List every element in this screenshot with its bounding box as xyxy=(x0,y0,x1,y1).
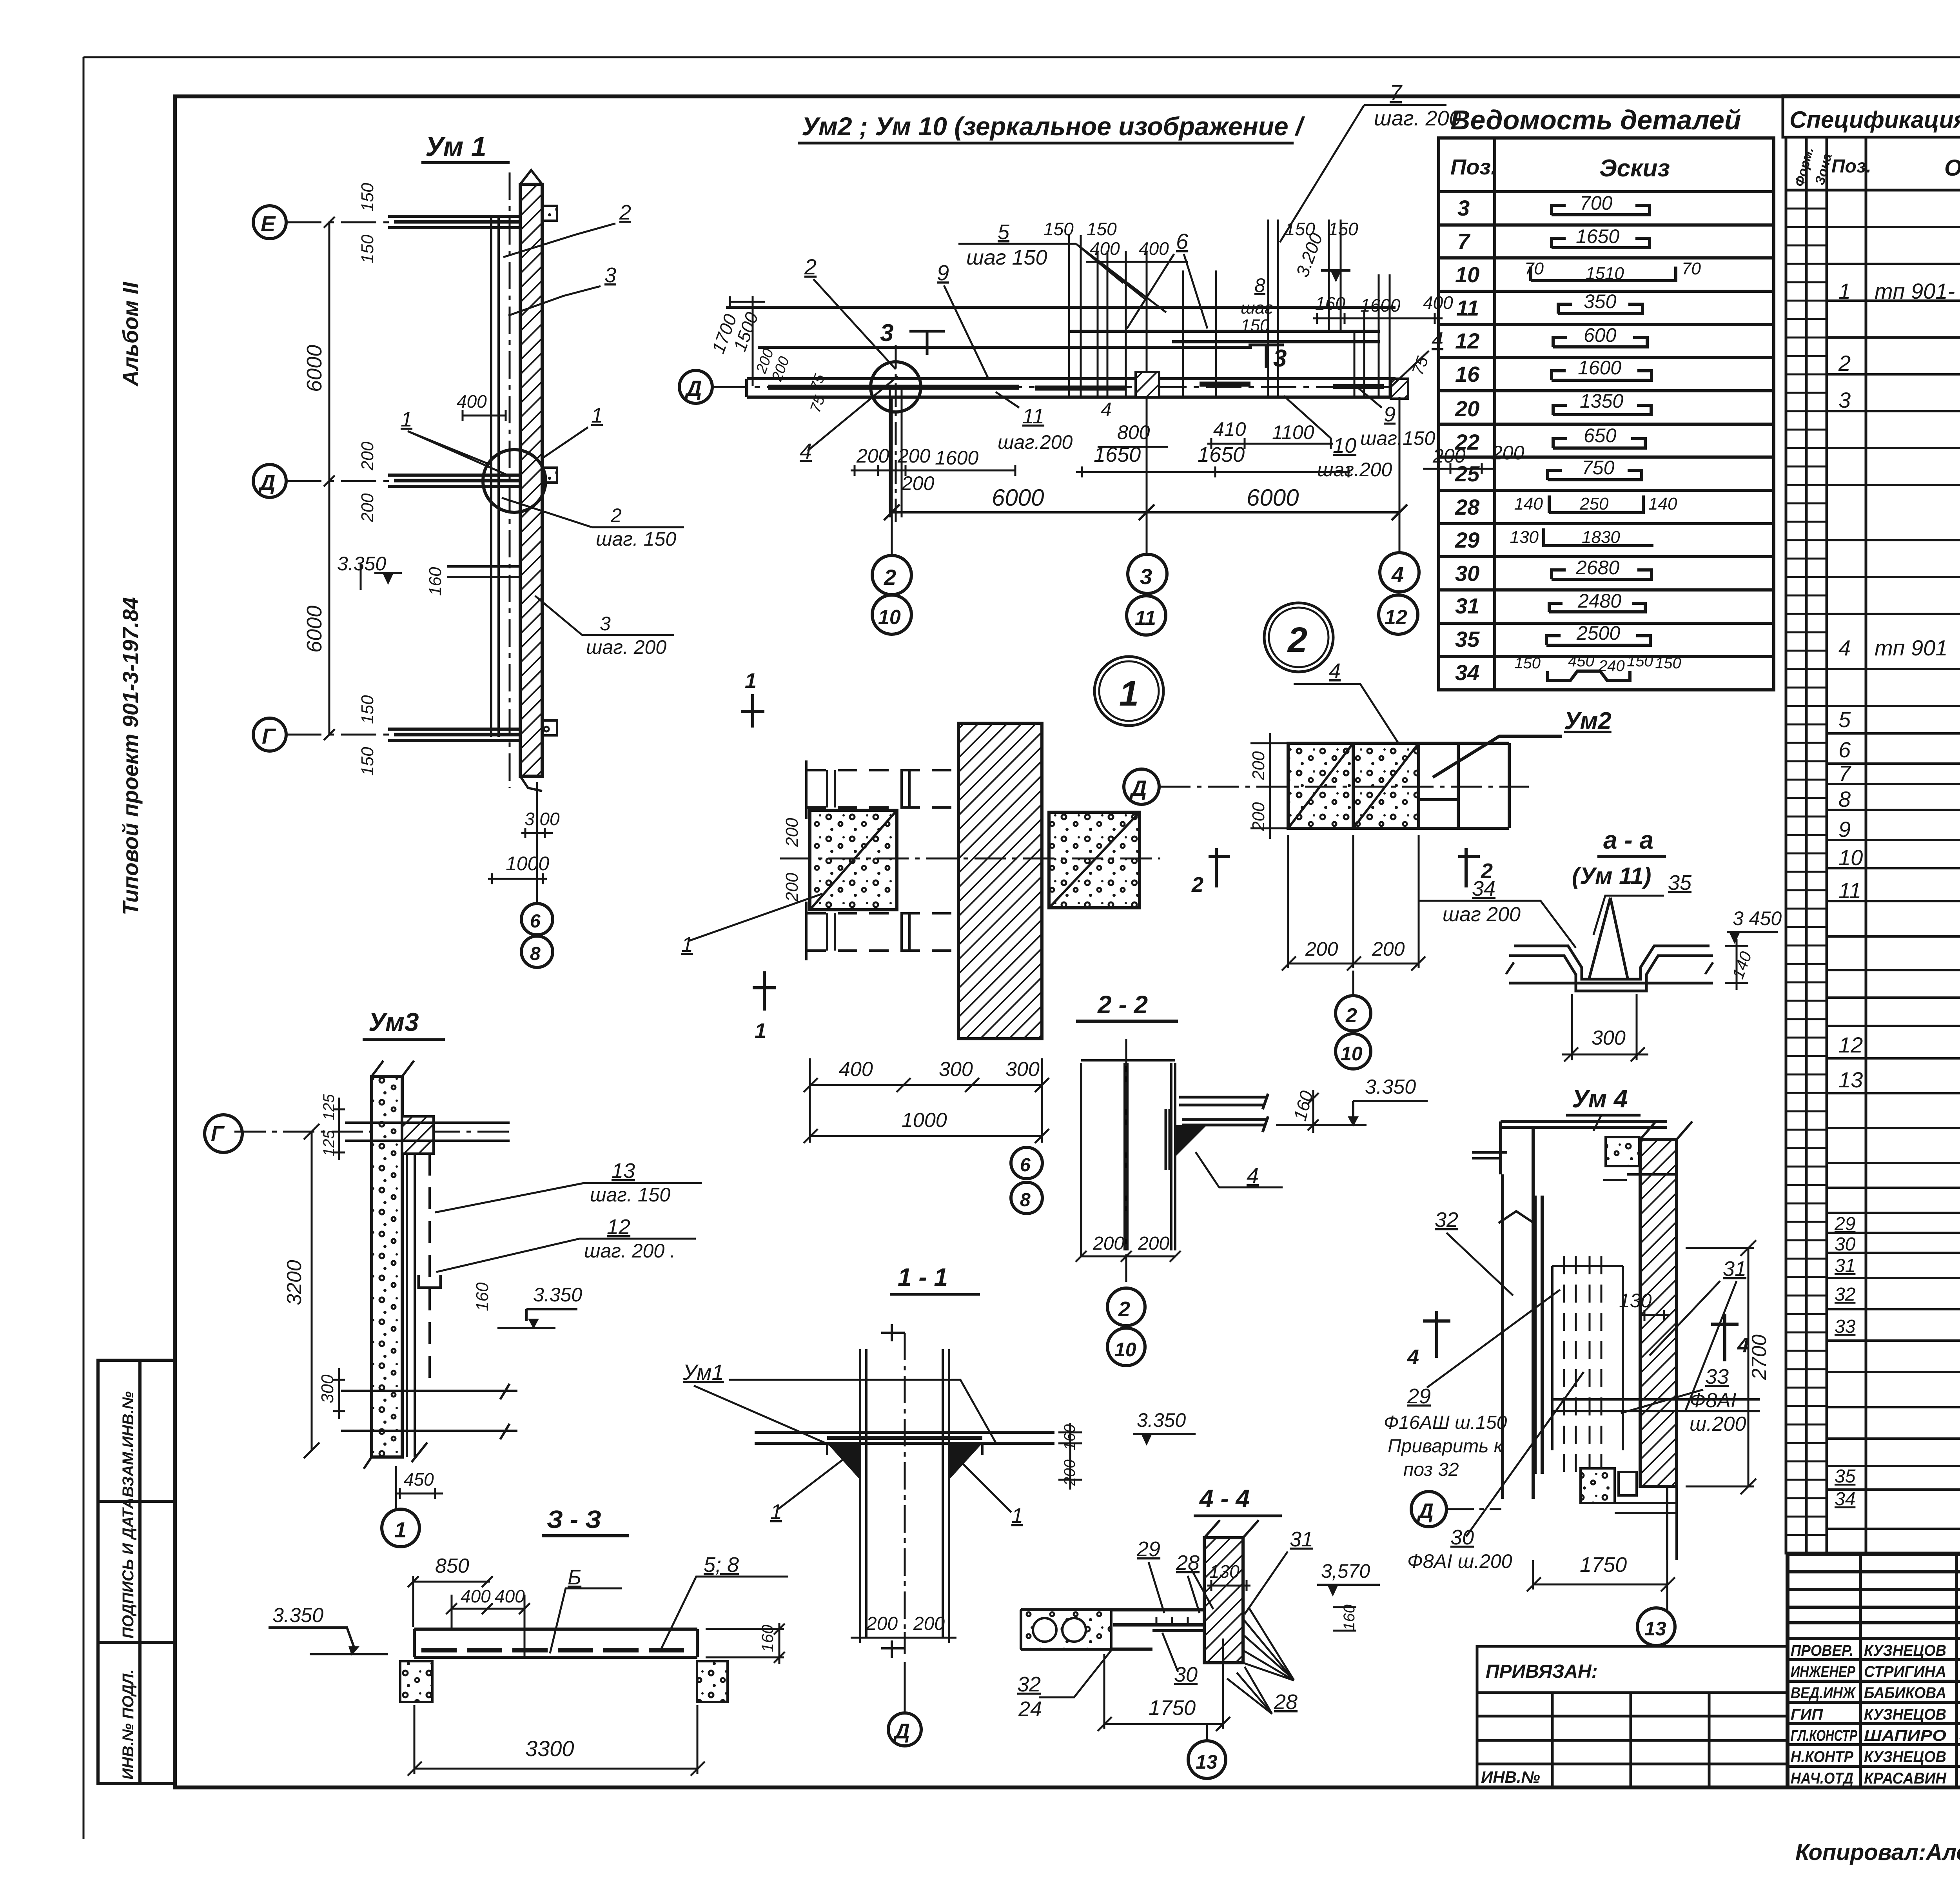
svg-text:20: 20 xyxy=(1455,396,1479,421)
1-1 slab dark bar xyxy=(827,1436,982,1440)
svg-text:33: 33 xyxy=(1705,1365,1729,1388)
detail 1 plan: left vertical edges xyxy=(806,760,909,960)
svg-text:2480: 2480 xyxy=(1577,590,1621,612)
svg-text:300: 300 xyxy=(1592,1027,1626,1049)
stirrup verticals xyxy=(890,220,1390,517)
svg-text:СТРИГИНА: СТРИГИНА xyxy=(1864,1663,1946,1680)
svg-text:1600: 1600 xyxy=(935,447,978,469)
axis circle 1 xyxy=(382,1509,419,1547)
svg-text:1600: 1600 xyxy=(1360,295,1401,316)
svg-text:400: 400 xyxy=(839,1058,873,1081)
svg-text:130: 130 xyxy=(1209,1561,1240,1582)
svg-text:1: 1 xyxy=(1011,1504,1023,1528)
svg-text:Ум 1: Ум 1 xyxy=(425,131,486,162)
svg-text:2: 2 xyxy=(610,504,622,526)
svg-text:1350: 1350 xyxy=(1580,390,1623,412)
Ум1 embed plates xyxy=(543,206,557,221)
svg-text:200: 200 xyxy=(1305,938,1338,960)
svg-text:160: 160 xyxy=(1341,1604,1358,1631)
svg-text:31: 31 xyxy=(1455,593,1479,618)
svg-text:2500: 2500 xyxy=(1576,622,1620,644)
Ум4 right hatched wall xyxy=(1640,1140,1677,1486)
svg-text:8: 8 xyxy=(1020,1190,1031,1210)
svg-text:Обозначение: Обозначение xyxy=(1944,155,1960,181)
svg-text:(Ум 11): (Ум 11) xyxy=(1572,863,1651,889)
svg-text:шаг 200: шаг 200 xyxy=(1443,903,1521,926)
svg-text:150: 150 xyxy=(1241,316,1270,335)
svg-text:33: 33 xyxy=(1835,1316,1856,1337)
axis circle Д xyxy=(1124,769,1159,804)
svg-text:1: 1 xyxy=(681,933,693,956)
sketch numbers xyxy=(1510,192,1701,675)
svg-text:Ум2 ; Ум 10 (зеркальное изобра: Ум2 ; Ум 10 (зеркальное изображение / xyxy=(802,112,1305,141)
svg-text:Ф16АШ ш.150: Ф16АШ ш.150 xyxy=(1384,1412,1507,1433)
2-2 corbel slab xyxy=(1166,1094,1268,1170)
axis circle 4 xyxy=(1380,553,1419,592)
big detail circle 1 xyxy=(1094,657,1163,726)
1-1 top section mark xyxy=(881,1324,905,1341)
svg-text:1: 1 xyxy=(1838,279,1851,303)
slabs at axes xyxy=(388,216,520,740)
svg-text:3,570: 3,570 xyxy=(1321,1560,1370,1582)
svg-text:200: 200 xyxy=(856,445,889,467)
node detail circle at Д xyxy=(483,450,546,512)
svg-text:28: 28 xyxy=(1274,1690,1298,1714)
svg-text:8: 8 xyxy=(530,944,541,964)
axis circle 10 xyxy=(872,595,911,634)
svg-text:3.350: 3.350 xyxy=(337,553,386,575)
svg-text:1000: 1000 xyxy=(506,853,549,875)
svg-text:Копировал:Алешикова: Копировал:Алешикова xyxy=(1795,1840,1960,1865)
svg-text:поз 32: поз 32 xyxy=(1403,1459,1459,1480)
Ум4 embed block top xyxy=(1606,1137,1639,1166)
З-З slab xyxy=(414,1629,697,1657)
svg-text:1: 1 xyxy=(770,1500,782,1524)
svg-text:ШАПИРО: ШАПИРО xyxy=(1864,1727,1946,1744)
svg-text:6000: 6000 xyxy=(992,484,1044,511)
svg-text:350: 350 xyxy=(1584,290,1617,312)
svg-text:КУЗНЕЦОВ: КУЗНЕЦОВ xyxy=(1864,1748,1946,1766)
svg-text:Д: Д xyxy=(1417,1499,1434,1523)
svg-text:ВЕД.ИНЖ: ВЕД.ИНЖ xyxy=(1791,1684,1856,1702)
svg-text:150: 150 xyxy=(1044,219,1074,239)
svg-text:10: 10 xyxy=(1341,1043,1363,1065)
svg-text:Ум1: Ум1 xyxy=(682,1360,724,1384)
svg-text:400: 400 xyxy=(1090,238,1120,259)
svg-text:600: 600 xyxy=(1584,324,1617,346)
svg-text:32: 32 xyxy=(1435,1208,1458,1232)
svg-text:400: 400 xyxy=(495,1586,525,1606)
svg-text:8: 8 xyxy=(1254,274,1265,296)
svg-text:3: 3 xyxy=(604,263,616,287)
svg-text:ПРИВЯЗАН:: ПРИВЯЗАН: xyxy=(1486,1661,1598,1682)
axis circle Д xyxy=(253,465,286,497)
vertical dim line xyxy=(324,217,361,740)
svg-text:160: 160 xyxy=(1315,293,1345,314)
svg-text:200: 200 xyxy=(782,873,802,902)
Ум4 left member xyxy=(1503,1174,1542,1499)
svg-text:800: 800 xyxy=(1117,421,1150,443)
circle 2 below plan xyxy=(1336,996,1371,1031)
left margin stamp strip xyxy=(98,1360,175,1784)
svg-text:150: 150 xyxy=(1087,219,1117,239)
Ум1 wall hatched strip xyxy=(520,184,542,776)
svg-text:12: 12 xyxy=(607,1215,630,1239)
1-1 axis circle Д xyxy=(888,1713,921,1746)
svg-text:Н.КОНТР: Н.КОНТР xyxy=(1791,1748,1853,1766)
svg-text:4: 4 xyxy=(1737,1334,1749,1357)
svg-text:200: 200 xyxy=(1372,938,1405,960)
node axis dashdot vertical xyxy=(895,345,897,527)
svg-text:4: 4 xyxy=(1329,659,1341,683)
circle 8 xyxy=(521,936,553,967)
svg-text:Ф8АІ ш.200: Ф8АІ ш.200 xyxy=(1407,1550,1512,1572)
Ум4 bottom blocks xyxy=(1581,1468,1615,1503)
svg-text:шаг.200: шаг.200 xyxy=(1317,459,1392,481)
axis circle Д xyxy=(1411,1492,1446,1527)
svg-text:4 - 4: 4 - 4 xyxy=(1199,1484,1250,1513)
Ум4 rebar dashed xyxy=(1564,1256,1601,1474)
svg-text:Д: Д xyxy=(893,1720,910,1743)
spec rows text xyxy=(1838,198,1960,1212)
svg-text:1830: 1830 xyxy=(1582,528,1620,547)
svg-text:1: 1 xyxy=(1119,674,1139,713)
svg-text:400: 400 xyxy=(1139,238,1169,259)
svg-text:6000: 6000 xyxy=(303,606,326,653)
svg-text:13: 13 xyxy=(1644,1618,1666,1640)
svg-text:150: 150 xyxy=(358,695,377,724)
svg-text:200: 200 xyxy=(782,818,802,847)
dense rows in narrow columns xyxy=(1786,209,1827,1535)
svg-text:34: 34 xyxy=(1455,660,1479,685)
circle 13 xyxy=(1637,1608,1675,1646)
svg-text:10: 10 xyxy=(878,606,901,629)
svg-text:31: 31 xyxy=(1723,1257,1746,1281)
svg-text:а - а: а - а xyxy=(1603,826,1653,854)
svg-text:4: 4 xyxy=(800,439,812,463)
svg-text:4: 4 xyxy=(1101,399,1112,421)
section marker 1 top xyxy=(741,694,764,728)
svg-text:28: 28 xyxy=(1176,1551,1200,1575)
svg-text:шаг. 200: шаг. 200 xyxy=(586,636,666,658)
svg-text:30: 30 xyxy=(1174,1663,1198,1686)
svg-text:70: 70 xyxy=(1524,259,1544,278)
svg-text:Д: Д xyxy=(258,470,275,495)
svg-text:3300: 3300 xyxy=(525,1736,574,1761)
svg-text:4: 4 xyxy=(1838,635,1851,660)
svg-text:6000: 6000 xyxy=(303,345,326,392)
svg-text:30: 30 xyxy=(1835,1234,1856,1255)
thick rebar segments xyxy=(768,384,1384,388)
svg-text:1650: 1650 xyxy=(1198,443,1245,466)
detail 1 plan: right concrete square xyxy=(1049,812,1140,908)
svg-text:5: 5 xyxy=(1838,707,1851,732)
svg-text:200: 200 xyxy=(1138,1233,1169,1254)
Ум3 top slab xyxy=(402,1116,434,1154)
svg-text:Поз.: Поз. xyxy=(1831,156,1871,177)
beam axis dash-dot xyxy=(712,386,1411,388)
row lines across body xyxy=(1827,227,1960,1529)
svg-text:6: 6 xyxy=(1838,737,1851,762)
svg-text:130: 130 xyxy=(1510,528,1539,547)
svg-text:300: 300 xyxy=(939,1058,973,1081)
svg-text:1750: 1750 xyxy=(1580,1553,1627,1577)
svg-text:3: 3 xyxy=(880,319,893,347)
title block inner lines xyxy=(1788,1554,1960,1787)
section mark 3 right xyxy=(1249,345,1284,368)
1-1 slab xyxy=(755,1432,1054,1443)
svg-text:КРАСАВИН: КРАСАВИН xyxy=(1864,1770,1947,1787)
section marker 2 right xyxy=(1458,848,1480,887)
svg-text:34: 34 xyxy=(1472,877,1495,900)
svg-text:БАБИКОВА: БАБИКОВА xyxy=(1864,1684,1946,1702)
svg-text:4: 4 xyxy=(1391,562,1404,587)
svg-text:400: 400 xyxy=(461,1586,491,1606)
beam main lines xyxy=(726,307,1396,397)
svg-text:3200: 3200 xyxy=(283,1260,306,1305)
svg-text:Эскиз: Эскиз xyxy=(1599,155,1670,182)
Ум3 wall concrete strip xyxy=(372,1076,402,1457)
svg-text:400: 400 xyxy=(457,391,487,412)
svg-text:ВЗАМ.ИНВ.№: ВЗАМ.ИНВ.№ xyxy=(120,1391,137,1497)
svg-text:Ум 4: Ум 4 xyxy=(1572,1085,1628,1113)
sketches xyxy=(1531,205,1676,680)
vedomost grid xyxy=(1439,138,1774,690)
svg-text:Альбом II: Альбом II xyxy=(118,281,143,387)
svg-text:НАЧ.ОТД: НАЧ.ОТД xyxy=(1791,1770,1853,1787)
Ум4 top beam xyxy=(1501,1121,1667,1174)
svg-text:3: 3 xyxy=(1838,388,1851,412)
svg-text:5; 8: 5; 8 xyxy=(704,1553,739,1577)
svg-text:Приварить к: Приварить к xyxy=(1388,1436,1504,1457)
svg-text:11: 11 xyxy=(1022,405,1044,428)
svg-text:12: 12 xyxy=(1838,1032,1863,1057)
axis circle 2 xyxy=(872,555,911,595)
svg-text:31: 31 xyxy=(1835,1256,1855,1276)
svg-text:1750: 1750 xyxy=(1149,1696,1196,1720)
svg-text:Ф8АІ: Ф8АІ xyxy=(1690,1389,1736,1412)
svg-text:2: 2 xyxy=(804,254,817,279)
axis circle Е xyxy=(253,206,286,239)
svg-text:1: 1 xyxy=(745,669,757,693)
detail 1 plan: left concrete square xyxy=(810,810,897,910)
4-4 hatched wall xyxy=(1204,1538,1243,1663)
circle 10 below plan xyxy=(1336,1034,1371,1069)
svg-text:300: 300 xyxy=(318,1374,337,1403)
4-4 circle 13 xyxy=(1188,1741,1226,1778)
axis circle Д left xyxy=(679,370,712,403)
svg-text:150: 150 xyxy=(1514,655,1541,672)
circle 6 xyxy=(521,904,553,935)
svg-text:450: 450 xyxy=(404,1469,434,1490)
svg-text:200: 200 xyxy=(358,493,377,523)
axis drops xyxy=(892,397,1399,555)
svg-text:шаг. 150: шаг. 150 xyxy=(596,528,676,550)
svg-text:200: 200 xyxy=(1491,442,1524,464)
2-2 wall lines xyxy=(1081,1060,1175,1256)
svg-text:ИНВ.№: ИНВ.№ xyxy=(1481,1768,1540,1786)
svg-text:ИНЖЕНЕР: ИНЖЕНЕР xyxy=(1791,1663,1855,1680)
svg-text:4: 4 xyxy=(1407,1345,1419,1369)
circle 6 below xyxy=(1011,1147,1042,1179)
svg-text:28: 28 xyxy=(1455,495,1480,519)
svg-text:30: 30 xyxy=(1455,561,1479,586)
Ум1 wall top break xyxy=(520,170,542,791)
svg-text:ПОДПИСЬ И ДАТА: ПОДПИСЬ И ДАТА xyxy=(120,1497,137,1639)
svg-text:2 - 2: 2 - 2 xyxy=(1097,991,1148,1019)
leader from Ум2 down-left xyxy=(1433,736,1562,777)
svg-text:850: 850 xyxy=(435,1555,469,1577)
svg-text:1650: 1650 xyxy=(1576,225,1619,247)
4-4 thick rebar line xyxy=(1113,1623,1235,1627)
svg-text:Д: Д xyxy=(1129,776,1147,800)
svg-text:70: 70 xyxy=(1682,259,1701,278)
svg-text:ИНВ.№ ПОДЛ.: ИНВ.№ ПОДЛ. xyxy=(120,1669,137,1780)
svg-text:200: 200 xyxy=(358,441,377,471)
Ум2 plan left dim lines xyxy=(1250,733,1288,839)
svg-text:32: 32 xyxy=(1835,1284,1855,1305)
svg-text:КУЗНЕЦОВ: КУЗНЕЦОВ xyxy=(1864,1706,1946,1723)
З-З supports xyxy=(400,1661,432,1702)
detail 1 plan: dashed wall edges xyxy=(806,770,958,951)
svg-text:12: 12 xyxy=(1455,328,1479,353)
svg-text:3: 3 xyxy=(600,613,611,635)
Ум4 inner formwork lines xyxy=(1552,1266,1760,1450)
svg-text:ПРОВЕР.: ПРОВЕР. xyxy=(1791,1642,1853,1659)
svg-text:3: 3 xyxy=(1457,196,1470,220)
privyazan strip xyxy=(1477,1646,1788,1787)
svg-text:шаг 150: шаг 150 xyxy=(966,246,1047,269)
circle 8 below xyxy=(1011,1182,1042,1214)
svg-text:шаг. 200: шаг. 200 xyxy=(1374,107,1461,130)
2-2 circle 10 xyxy=(1107,1328,1145,1366)
svg-text:3 450: 3 450 xyxy=(1733,907,1782,929)
svg-text:1650: 1650 xyxy=(1094,443,1141,466)
svg-text:З - З: З - З xyxy=(547,1505,601,1533)
2-2 corbel triangle xyxy=(1175,1125,1207,1157)
signature rows labels xyxy=(1791,1642,1947,1787)
svg-text:Ум3: Ум3 xyxy=(368,1007,419,1036)
svg-text:13: 13 xyxy=(1838,1067,1863,1092)
svg-text:200: 200 xyxy=(913,1613,945,1634)
svg-text:10: 10 xyxy=(1838,845,1863,870)
svg-text:ГИП: ГИП xyxy=(1791,1706,1823,1723)
section marker 1 bottom xyxy=(753,971,776,1011)
svg-text:410: 410 xyxy=(1213,418,1246,440)
svg-text:2: 2 xyxy=(1287,621,1307,660)
svg-text:6: 6 xyxy=(530,911,541,932)
axis circle 12 xyxy=(1379,595,1418,634)
svg-text:160: 160 xyxy=(473,1282,492,1311)
svg-text:1 - 1: 1 - 1 xyxy=(898,1263,948,1291)
svg-text:1000: 1000 xyxy=(902,1109,947,1132)
svg-text:9: 9 xyxy=(937,260,949,285)
svg-text:34: 34 xyxy=(1835,1489,1855,1510)
detail 1 plan: central hatched column xyxy=(958,723,1042,1039)
svg-text:10: 10 xyxy=(1333,434,1356,457)
svg-text:200: 200 xyxy=(1249,751,1268,780)
svg-text:16: 16 xyxy=(1455,362,1480,386)
svg-text:130: 130 xyxy=(1619,1290,1652,1312)
big detail circle 2 xyxy=(1264,603,1333,672)
axis circle Г xyxy=(205,1115,242,1152)
svg-text:2: 2 xyxy=(1118,1297,1130,1321)
svg-text:7: 7 xyxy=(1457,229,1471,254)
svg-text:ГЛ.КОНСТР: ГЛ.КОНСТР xyxy=(1791,1727,1857,1744)
svg-text:шаг. 200 .: шаг. 200 . xyxy=(584,1240,675,1262)
svg-text:тп 901-: тп 901- xyxy=(1875,279,1955,303)
svg-text:Г: Г xyxy=(211,1122,225,1145)
svg-text:150: 150 xyxy=(1328,219,1358,239)
svg-text:Ум2: Ум2 xyxy=(1564,708,1612,735)
svg-text:29: 29 xyxy=(1834,1214,1855,1234)
svg-text:400: 400 xyxy=(1423,292,1453,313)
1-1 column xyxy=(860,1349,949,1638)
svg-text:150: 150 xyxy=(358,234,377,263)
svg-text:140: 140 xyxy=(1648,494,1677,514)
svg-text:6: 6 xyxy=(1176,229,1189,254)
break marks xyxy=(1506,962,1713,974)
svg-text:300: 300 xyxy=(1005,1058,1040,1081)
svg-text:6: 6 xyxy=(1020,1155,1031,1176)
svg-text:32: 32 xyxy=(1017,1673,1041,1696)
svg-text:2: 2 xyxy=(1191,873,1203,896)
svg-text:700: 700 xyxy=(1580,192,1613,214)
2-2 axis dash-dot xyxy=(1125,1039,1127,1286)
svg-text:200: 200 xyxy=(1249,802,1268,831)
svg-text:1510: 1510 xyxy=(1586,264,1624,283)
svg-text:200: 200 xyxy=(866,1613,898,1634)
svg-text:10: 10 xyxy=(1114,1339,1136,1361)
svg-text:11: 11 xyxy=(1135,607,1156,630)
svg-text:13: 13 xyxy=(1196,1751,1218,1773)
svg-text:4: 4 xyxy=(1432,328,1443,352)
svg-text:тп 901: тп 901 xyxy=(1875,635,1947,660)
Ум1 wall axis dash-dot xyxy=(509,172,511,788)
svg-text:3 00: 3 00 xyxy=(524,809,560,829)
svg-text:10: 10 xyxy=(1455,262,1479,287)
Ум4 top wall lines xyxy=(1603,1121,1692,1180)
svg-text:шаг: шаг xyxy=(1241,298,1273,318)
svg-text:150: 150 xyxy=(1655,655,1681,672)
2-2 circle 2 xyxy=(1107,1288,1145,1326)
svg-text:1: 1 xyxy=(401,408,412,431)
axis lines xyxy=(286,222,521,735)
svg-text:3.350: 3.350 xyxy=(1137,1409,1186,1431)
svg-text:750: 750 xyxy=(1582,457,1615,479)
svg-text:Г: Г xyxy=(262,724,276,748)
axis circle Г xyxy=(253,718,286,751)
svg-text:2: 2 xyxy=(884,565,896,590)
svg-text:150: 150 xyxy=(358,183,377,212)
Ум3 rebar dashed xyxy=(428,1154,431,1388)
svg-text:2: 2 xyxy=(1838,351,1851,376)
svg-text:шаг.150: шаг.150 xyxy=(1360,427,1435,449)
svg-text:35: 35 xyxy=(1835,1466,1856,1487)
trough section xyxy=(1509,898,1713,991)
svg-text:11: 11 xyxy=(1456,296,1479,320)
Ум2 plan squares xyxy=(1288,743,1353,828)
Ум3 formwork lines xyxy=(407,1116,415,1457)
svg-text:7: 7 xyxy=(1838,761,1851,786)
svg-text:1: 1 xyxy=(591,404,603,427)
svg-text:5: 5 xyxy=(998,220,1010,244)
svg-text:35: 35 xyxy=(1455,627,1480,651)
svg-text:Поз.: Поз. xyxy=(1450,154,1497,179)
svg-text:1600: 1600 xyxy=(1578,357,1621,379)
svg-text:450: 450 xyxy=(1568,653,1594,670)
svg-text:12: 12 xyxy=(1385,606,1407,629)
